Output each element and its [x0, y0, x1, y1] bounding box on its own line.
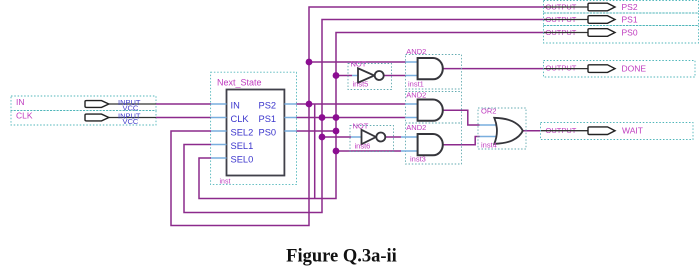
wire NOT inst6 out to AND2 inst3	[385, 136, 401, 138]
wire OR2 out to WAIT	[523, 130, 542, 132]
svg-text:IN: IN	[16, 97, 25, 107]
wire branch to NOT inst5	[336, 75, 352, 77]
output pin DONE	[544, 61, 696, 78]
junction dot PS1 row	[319, 114, 326, 121]
wire branch to NOT inst6	[322, 136, 351, 138]
wire PS0 vertical bus	[199, 33, 546, 199]
NOT gate inst5	[348, 60, 392, 90]
svg-text:PS1: PS1	[259, 114, 277, 124]
wire AND2 inst3 out to OR2	[443, 137, 480, 145]
input pin IN	[11, 96, 156, 113]
svg-text:inst: inst	[220, 179, 231, 186]
output pin PS0	[544, 26, 699, 44]
svg-text:inst3: inst3	[410, 155, 426, 164]
block Next_State inst	[211, 72, 297, 185]
svg-text:inst6: inst6	[355, 142, 371, 151]
svg-text:CLK: CLK	[16, 111, 33, 121]
svg-text:AND2: AND2	[406, 123, 426, 132]
junction dot PS2 row	[306, 101, 313, 108]
wire NOT inst5 out to AND2 inst1	[384, 75, 406, 77]
output pin WAIT	[541, 123, 694, 140]
wire PS1 vertical bus	[184, 20, 546, 213]
wire PS2 vertical bus	[171, 7, 546, 226]
junction dot inst3 branch	[333, 148, 340, 155]
wire branch to AND2 inst3 lower	[336, 150, 401, 152]
junction dot PS0 NOT5 branch	[333, 72, 340, 79]
wire PS0 row	[297, 130, 337, 132]
wire branch to AND2 inst1 top	[309, 61, 406, 63]
svg-text:Figure Q.3a-ii: Figure Q.3a-ii	[286, 247, 397, 267]
svg-text:AND2: AND2	[406, 47, 426, 56]
NOT gate inst6	[350, 122, 394, 152]
svg-text:PS2: PS2	[259, 100, 277, 110]
svg-text:VCC: VCC	[123, 117, 139, 126]
svg-text:PS1: PS1	[622, 14, 638, 24]
junction dot PS2 branch	[306, 59, 313, 66]
wire CLK input to block	[156, 117, 211, 119]
wire IN input to block	[156, 103, 211, 105]
svg-text:PS2: PS2	[622, 2, 638, 12]
svg-text:SEL2: SEL2	[231, 127, 254, 137]
svg-text:inst5: inst5	[353, 80, 369, 89]
svg-text:AND2: AND2	[406, 91, 426, 100]
svg-text:SEL1: SEL1	[231, 141, 254, 151]
svg-text:NOT: NOT	[351, 60, 367, 69]
AND2 gate inst3	[401, 123, 462, 164]
output pin PS1	[544, 13, 699, 26]
junction dot PS0 row	[333, 128, 340, 135]
wire PS1 row	[297, 117, 406, 119]
input pin CLK	[11, 111, 156, 127]
wire AND2 inst1 out to DONE	[443, 68, 544, 70]
wire extra vertical	[314, 104, 316, 199]
svg-text:OR2: OR2	[481, 107, 496, 116]
svg-text:IN: IN	[231, 100, 240, 110]
svg-text:DONE: DONE	[622, 63, 647, 73]
AND2 gate inst2	[406, 91, 462, 124]
AND2 gate inst1	[406, 47, 462, 89]
svg-text:CLK: CLK	[231, 114, 250, 124]
svg-text:PS0: PS0	[622, 27, 638, 37]
svg-text:inst4: inst4	[481, 141, 497, 150]
wire AND2 inst2 out to OR2	[443, 110, 480, 125]
OR2 gate inst4	[478, 107, 526, 150]
svg-text:inst1: inst1	[408, 80, 424, 89]
wire PS2 row	[297, 103, 406, 105]
junction dot NOT6 branch	[319, 134, 326, 141]
svg-text:Next_State: Next_State	[217, 78, 262, 88]
junction dot PS1 row right	[333, 114, 340, 121]
svg-text:WAIT: WAIT	[622, 126, 643, 136]
output pin PS2	[544, 1, 699, 14]
svg-text:PS0: PS0	[259, 127, 277, 137]
svg-text:SEL0: SEL0	[231, 154, 254, 164]
